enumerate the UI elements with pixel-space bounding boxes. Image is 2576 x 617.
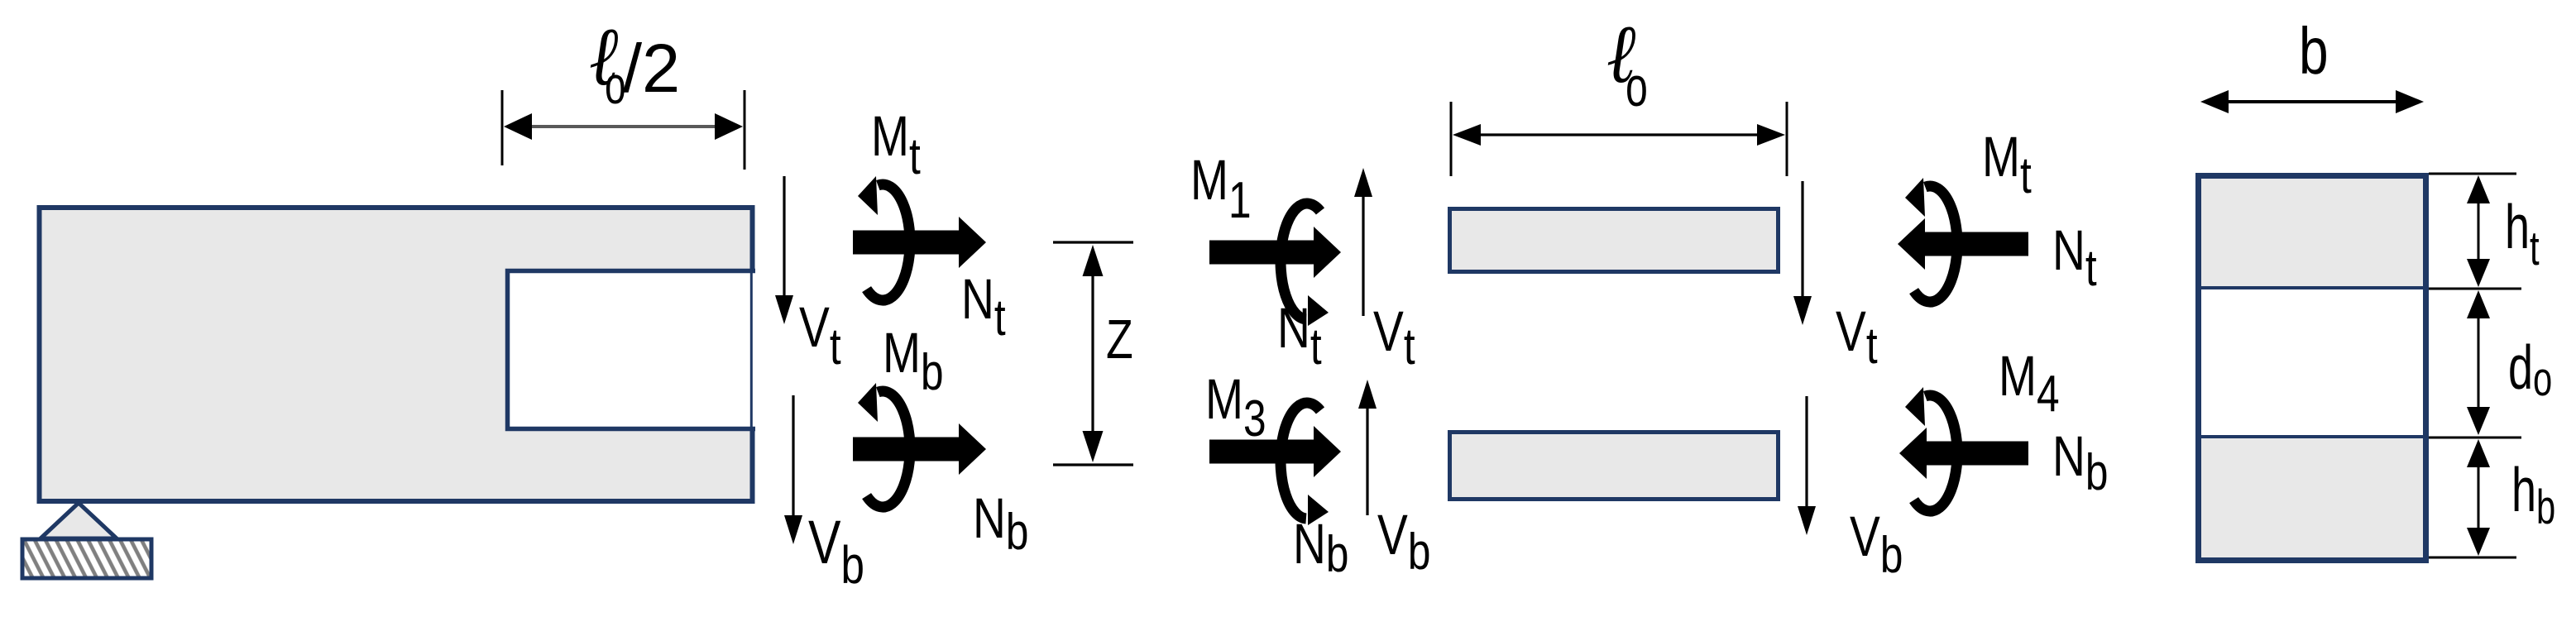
moment arc Mb (group 1) — [858, 383, 910, 507]
shear arrow Vt at beam end — [775, 176, 793, 324]
label Vt (beam end) — [799, 295, 841, 375]
label lo — [1606, 9, 1648, 118]
label M3 — [1205, 367, 1266, 447]
label Mt (group 3) — [1982, 125, 2032, 203]
dimension lo/2 arrow — [504, 113, 743, 140]
svg-text:o: o — [1626, 56, 1648, 118]
axial force arrow Nb (group 1) — [853, 423, 986, 475]
Z dimension double arrow — [1083, 245, 1104, 462]
cross-section outline — [2199, 176, 2426, 561]
axial force arrow N3 (bottom) — [1209, 426, 1341, 477]
label Vb (beam end) — [808, 509, 864, 595]
label Nt (group 1) — [961, 267, 1006, 346]
beam with opening (solid region) — [40, 208, 753, 501]
beam opening right thin edge — [750, 270, 753, 429]
label Nt (group 3) — [2052, 218, 2097, 296]
bottom chord (tee below opening) — [1450, 433, 1779, 500]
support hatched base block — [22, 539, 151, 578]
label Nb (group 3) — [2052, 424, 2108, 500]
cross-section bottom flange (hb band) — [2201, 438, 2423, 557]
label M4 — [1999, 344, 2060, 422]
label Vt (chord right end) — [1836, 299, 1878, 374]
Z dimension bottom line — [1053, 463, 1133, 466]
pin support triangle — [41, 503, 117, 538]
axial force arrow Nt (group 1) — [853, 217, 986, 268]
label lo/2 — [589, 12, 680, 115]
shear arrow Vt (group 2, upward) — [1354, 168, 1372, 316]
label Nb (group 1) — [973, 486, 1028, 560]
beam opening (white cut-out) — [505, 269, 755, 431]
label Vb (group 2) — [1377, 503, 1430, 580]
label ht — [2505, 192, 2540, 275]
top chord (tee above opening) — [1450, 209, 1779, 272]
moment arc M1 — [1281, 203, 1329, 326]
dimension lo right tick — [1786, 102, 1788, 176]
shear arrow Vb at beam end — [784, 395, 802, 544]
tick at opening bottom — [2429, 437, 2521, 439]
dimension b arrow — [2200, 90, 2424, 113]
moment arc Mt (group 3) — [1905, 178, 1957, 302]
axial force arrow Nt (group 3, leftward) — [1898, 218, 2028, 270]
svg-text:/2: /2 — [623, 30, 680, 107]
label do — [2508, 332, 2552, 405]
dimension lo left tick — [1450, 102, 1453, 176]
dimension do arrow — [2467, 290, 2490, 435]
axial force arrow N1 (top) — [1209, 227, 1341, 278]
label Nt (group 2) — [1277, 296, 1322, 375]
label b — [2299, 14, 2329, 88]
dimension lo arrow — [1453, 124, 1785, 146]
tick at section top — [2429, 173, 2516, 175]
label Vt (group 2) — [1373, 299, 1415, 375]
cross-section divider line (top of opening) — [2198, 286, 2426, 289]
label Mt (group 1) — [871, 104, 921, 184]
shear arrow Vb (chord right end) — [1798, 396, 1816, 535]
dimension lo/2 left tick — [501, 90, 504, 165]
label Mb (group 1) — [883, 321, 944, 400]
axial force arrow Nb (group 3, leftward) — [1899, 428, 2028, 479]
label Nb (group 2) — [1293, 512, 1348, 582]
tick at opening top — [2429, 288, 2521, 290]
label M1 — [1190, 148, 1252, 228]
dimension lo/2 right tick — [744, 90, 746, 170]
shear arrow Vb (group 2, upward) — [1358, 380, 1377, 515]
moment arc M4 — [1905, 387, 1957, 511]
tick at section bottom — [2429, 557, 2516, 559]
cross-section top flange (ht band) — [2201, 179, 2423, 286]
label Z — [1106, 308, 1133, 370]
label hb — [2511, 455, 2555, 533]
dimension ht arrow — [2467, 175, 2490, 287]
svg-text:b: b — [2299, 14, 2329, 88]
svg-text:Z: Z — [1106, 308, 1133, 370]
cross-section divider line (bottom of opening) — [2198, 435, 2426, 438]
moment arc M3 — [1281, 403, 1329, 525]
shear arrow Vt (chord right end) — [1793, 181, 1812, 325]
moment arc Mt (group 1) — [858, 176, 910, 300]
dimension hb arrow — [2467, 439, 2490, 556]
label Vb (chord right end) — [1850, 505, 1903, 583]
Z dimension top line — [1053, 241, 1133, 243]
